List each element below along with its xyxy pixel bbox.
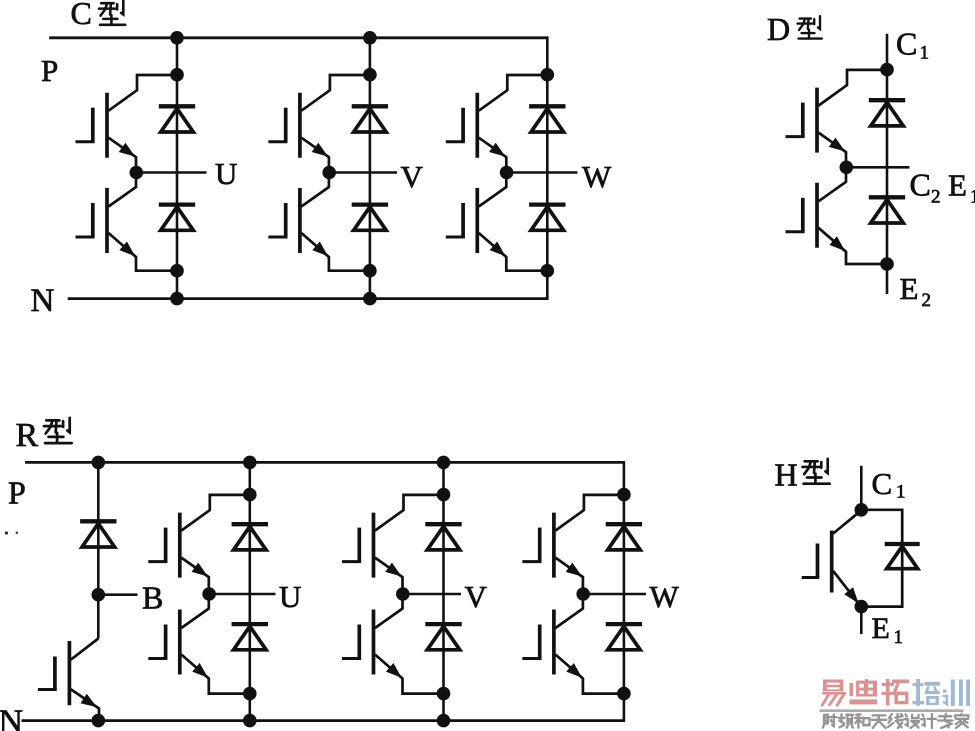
junction brake emitter-N rail — [92, 714, 106, 728]
IGBT R-V upper emitter wire — [375, 558, 403, 594]
IGBT R-U upper collector wire — [181, 495, 250, 531]
IGBT R-W lower emitter wire — [555, 655, 624, 694]
IGBT R-W lower body bar — [552, 610, 556, 675]
IGBT C-W upper body bar — [475, 93, 479, 158]
IGBT R-V lower gate bar — [357, 625, 361, 659]
IGBT D lower body bar — [815, 183, 819, 248]
watermark glyph Tuo (red) — [886, 679, 890, 705]
IGBT D upper collector wire — [819, 70, 888, 106]
IGBT D lower collector wire — [819, 169, 847, 201]
svg-text:C: C — [71, 0, 92, 31]
diode R-W upper freewheel — [606, 522, 642, 526]
IGBT R-U lower emitter wire — [181, 655, 250, 694]
wire C-U output — [136, 171, 206, 174]
diode R-U lower freewheel — [232, 622, 268, 626]
IGBT R-U upper gate lead — [148, 560, 167, 563]
svg-text:B: B — [142, 580, 163, 616]
diode R-V upper freewheel — [425, 522, 461, 526]
IGBT R-W upper emitter wire — [555, 558, 583, 594]
svg-text:U: U — [215, 156, 237, 191]
IGBT R-U lower gate bar — [164, 625, 168, 659]
IGBT C-U lower body bar — [105, 188, 109, 253]
IGBT D lower emitter arrow — [829, 236, 845, 251]
diode R-U upper freewheel — [232, 522, 268, 526]
IGBT R-V lower gate lead — [342, 657, 361, 660]
diode C-V lower freewheel — [352, 202, 388, 206]
watermark glyph Pei (blue) — [916, 679, 920, 706]
junction R-U midpoint node — [202, 587, 216, 601]
wire C-U leg bus — [176, 38, 179, 299]
wire brake leg upper bus — [97, 462, 100, 638]
IGBT H emitter — [833, 571, 861, 606]
IGBT C-V upper emitter arrow — [312, 143, 328, 157]
IGBT C-W lower body bar — [475, 188, 479, 253]
IGBT C-U upper gate bar — [91, 108, 95, 142]
IGBT H gate lead — [802, 576, 820, 579]
junction C-V top rail — [363, 31, 377, 45]
IGBT R-U upper body bar — [178, 513, 182, 578]
svg-text:N: N — [0, 704, 23, 731]
IGBT R-V upper body bar — [372, 513, 376, 578]
IGBT H gate bar — [816, 544, 820, 578]
IGBT C-W upper gate bar — [461, 108, 465, 142]
junction C-U bottom rail — [170, 292, 184, 306]
diode C-V upper freewheel — [352, 104, 388, 108]
IGBT R-W lower emitter arrow — [566, 663, 582, 678]
watermark underline — [820, 709, 964, 712]
IGBT C-W lower collector wire — [479, 175, 507, 207]
watermark tagline glyph Jia (gray) — [960, 714, 962, 715]
diode C-W upper freewheel — [529, 104, 565, 108]
svg-text:1: 1 — [896, 482, 906, 503]
IGBT R-U upper emitter arrow — [192, 563, 208, 577]
svg-text:1: 1 — [894, 627, 904, 648]
IGBT C-V lower gate bar — [284, 203, 288, 237]
junction R-V bottom rail — [437, 714, 451, 728]
svg-text:N: N — [31, 283, 55, 319]
IGBT D upper gate bar — [801, 103, 805, 137]
wire R-U output — [209, 593, 275, 596]
wire C-V leg bus — [369, 38, 372, 299]
junction C-W midpoint node — [500, 166, 514, 180]
junction C-V midpoint node — [322, 166, 336, 180]
diode brake (VD7) — [80, 519, 116, 523]
IGBT C-U upper body bar — [105, 93, 109, 158]
wire H emitter lead — [860, 607, 863, 634]
wire node B stub — [98, 593, 137, 596]
svg-text:U: U — [279, 579, 301, 614]
svg-text:E: E — [948, 168, 967, 203]
watermark tagline glyph She (gray) — [824, 715, 828, 724]
IGBT brake gate lead — [38, 688, 57, 691]
IGBT R-V upper collector wire — [375, 495, 444, 531]
svg-text:C: C — [910, 167, 931, 203]
IGBT C-U lower collector wire — [109, 175, 137, 207]
junction R-V collector node — [437, 488, 451, 502]
IGBT C-U lower gate lead — [76, 236, 95, 239]
svg-text:C: C — [872, 466, 893, 501]
watermark tagline glyph He (gray) — [856, 713, 860, 716]
svg-text:R: R — [16, 417, 39, 454]
wire C-W output — [507, 171, 578, 174]
IGBT D upper gate lead — [786, 135, 805, 138]
wire R-W leg bus — [623, 462, 626, 720]
IGBT C-U lower gate bar — [91, 203, 95, 237]
wire P bus (C-type) — [49, 36, 548, 39]
svg-text:1: 1 — [920, 43, 930, 64]
IGBT C-W upper emitter arrow — [489, 143, 505, 157]
IGBT C-W lower gate bar — [461, 203, 465, 237]
junction D emitter node — [880, 257, 894, 271]
junction R-W collector node — [617, 488, 631, 502]
diode H antiparallel — [885, 542, 920, 546]
svg-text:2: 2 — [931, 187, 941, 208]
wire C-V output — [329, 171, 397, 174]
IGBT H emitter arrow — [844, 587, 858, 603]
IGBT R-W upper emitter arrow — [566, 563, 582, 577]
IGBT D upper emitter wire — [819, 133, 847, 168]
IGBT C-U upper emitter wire — [109, 138, 137, 173]
diode D lower freewheel — [869, 195, 905, 199]
svg-text:P: P — [41, 53, 58, 88]
wire R-V output — [403, 593, 461, 596]
IGBT R-W upper gate bar — [538, 528, 542, 562]
junction C-U top rail — [170, 31, 184, 45]
IGBT C-V lower emitter arrow — [312, 242, 328, 257]
watermark tagline glyph Tian (gray) — [873, 714, 886, 716]
wire N bus (R-type) — [22, 719, 626, 722]
IGBT R-W lower gate lead — [522, 657, 541, 660]
junction R-W emitter node — [617, 687, 631, 701]
junction C-U midpoint node — [130, 166, 144, 180]
wire H collector lead — [860, 466, 863, 510]
IGBT C-W upper gate lead — [446, 140, 465, 143]
wire D leg bus — [886, 34, 889, 294]
junction R-U top rail — [243, 456, 257, 470]
IGBT H body bar — [830, 531, 834, 593]
watermark glyph Xun (blue) — [943, 690, 947, 693]
junction C-U emitter node — [170, 264, 184, 278]
IGBT D upper emitter arrow — [829, 138, 845, 152]
IGBT R-W upper gate lead — [522, 560, 541, 563]
svg-text:2: 2 — [922, 290, 932, 311]
svg-text:C: C — [896, 26, 917, 62]
IGBT C-U lower emitter arrow — [119, 242, 135, 257]
junction R-U bottom rail — [243, 714, 257, 728]
wire D output — [846, 166, 909, 169]
IGBT C-V lower body bar — [298, 188, 302, 253]
speckle artifact 2 — [16, 532, 18, 534]
IGBT C-V upper emitter wire — [301, 138, 329, 173]
svg-text:W: W — [650, 579, 680, 614]
diode C-U lower freewheel — [159, 202, 195, 206]
diode R-W lower freewheel — [606, 622, 642, 626]
svg-text:1: 1 — [970, 187, 975, 208]
svg-text:V: V — [465, 579, 488, 614]
svg-text:E: E — [900, 271, 919, 306]
IGBT R-W upper body bar — [552, 513, 556, 578]
IGBT H collector — [833, 510, 861, 533]
IGBT D lower gate bar — [801, 198, 805, 232]
wire P bus (R-type) — [25, 461, 625, 464]
IGBT C-W upper collector wire — [479, 75, 548, 111]
wire R-U leg bus — [249, 462, 252, 720]
IGBT R-U lower gate lead — [148, 657, 167, 660]
svg-text:V: V — [401, 159, 424, 194]
IGBT C-V upper body bar — [298, 93, 302, 158]
junction D midpoint node — [840, 161, 854, 175]
IGBT C-V lower collector wire — [301, 175, 329, 207]
IGBT C-V upper collector wire — [301, 75, 370, 111]
IGBT R-V lower emitter wire — [375, 655, 444, 694]
IGBT R-V lower body bar — [372, 610, 376, 675]
svg-text:P: P — [8, 475, 26, 511]
IGBT R-U upper gate bar — [164, 528, 168, 562]
IGBT R-U upper emitter wire — [181, 558, 209, 594]
junction R-V emitter node — [437, 687, 451, 701]
junction node B — [92, 588, 106, 602]
junction R-V top rail — [437, 456, 451, 470]
IGBT C-W upper emitter wire — [479, 138, 507, 173]
junction C-V collector node — [363, 68, 377, 82]
IGBT R-U lower body bar — [178, 610, 182, 675]
junction D collector node — [880, 63, 894, 77]
IGBT R-W upper collector wire — [555, 495, 624, 531]
IGBT R-V upper gate bar — [357, 528, 361, 562]
junction H emitter node — [855, 600, 869, 614]
junction C-W collector node — [541, 68, 555, 82]
svg-text:H: H — [775, 457, 798, 493]
svg-text:D: D — [767, 11, 790, 47]
watermark tagline glyph Pin (gray) — [840, 714, 842, 722]
svg-text:E: E — [872, 612, 890, 645]
IGBT C-U upper emitter arrow — [119, 143, 135, 157]
junction R-U collector node — [243, 488, 257, 502]
IGBT R-V upper emitter arrow — [385, 563, 401, 577]
IGBT C-V lower emitter wire — [301, 233, 370, 271]
IGBT C-V upper gate lead — [268, 140, 287, 143]
junction H collector node — [855, 503, 869, 517]
IGBT D lower emitter wire — [819, 228, 888, 264]
watermark glyph Di (red) — [865, 679, 868, 682]
IGBT R-U lower emitter arrow — [192, 663, 208, 678]
junction R-U emitter node — [243, 687, 257, 701]
IGBT C-W lower emitter wire — [479, 233, 548, 271]
IGBT brake collector — [71, 639, 99, 660]
IGBT R-V lower collector wire — [375, 596, 403, 628]
IGBT C-U lower emitter wire — [109, 233, 178, 271]
IGBT brake gate bar — [53, 657, 57, 690]
junction brake top rail — [92, 456, 106, 470]
junction C-U collector node — [170, 68, 184, 82]
junction R-V midpoint node — [396, 587, 410, 601]
IGBT R-U lower collector wire — [181, 596, 209, 628]
IGBT C-U upper collector wire — [109, 75, 178, 111]
watermark glyph Yi (red) — [823, 680, 843, 692]
diode D upper freewheel — [869, 98, 905, 102]
IGBT brake emitter arrow — [81, 694, 98, 708]
IGBT R-W lower gate bar — [538, 625, 542, 659]
wire H diode branch — [861, 510, 902, 607]
IGBT D lower gate lead — [786, 230, 805, 233]
wire R-V leg bus — [442, 462, 445, 720]
watermark tagline glyph Zhuan (gray) — [939, 715, 951, 717]
IGBT D upper body bar — [815, 88, 819, 153]
IGBT C-W lower emitter arrow — [490, 242, 506, 257]
junction C-V bottom rail — [363, 292, 377, 306]
diode R-V lower freewheel — [425, 622, 461, 626]
IGBT R-W lower collector wire — [555, 596, 583, 628]
wire N bus (C-type) — [68, 297, 549, 300]
IGBT C-U upper gate lead — [76, 140, 95, 143]
junction R-W midpoint node — [576, 587, 590, 601]
diode C-U upper freewheel — [159, 104, 195, 108]
wire R-W output — [583, 593, 646, 596]
IGBT C-V upper gate bar — [284, 108, 288, 142]
IGBT C-V lower gate lead — [268, 236, 287, 239]
watermark tagline glyph She2 (gray) — [906, 714, 907, 716]
IGBT R-V upper gate lead — [342, 560, 361, 563]
svg-text:W: W — [582, 159, 612, 194]
watermark tagline glyph Ji (gray) — [922, 714, 923, 716]
wire C-W leg bus — [546, 38, 549, 299]
junction C-W emitter node — [541, 264, 555, 278]
speckle artifact 1 — [5, 532, 8, 535]
IGBT brake body bar — [68, 641, 72, 705]
diode C-W lower freewheel — [529, 202, 565, 206]
IGBT R-V lower emitter arrow — [386, 663, 402, 678]
IGBT brake emitter — [71, 689, 99, 720]
watermark tagline glyph Xian (gray) — [889, 714, 892, 718]
IGBT C-W lower gate lead — [446, 236, 465, 239]
junction C-V emitter node — [363, 264, 377, 278]
